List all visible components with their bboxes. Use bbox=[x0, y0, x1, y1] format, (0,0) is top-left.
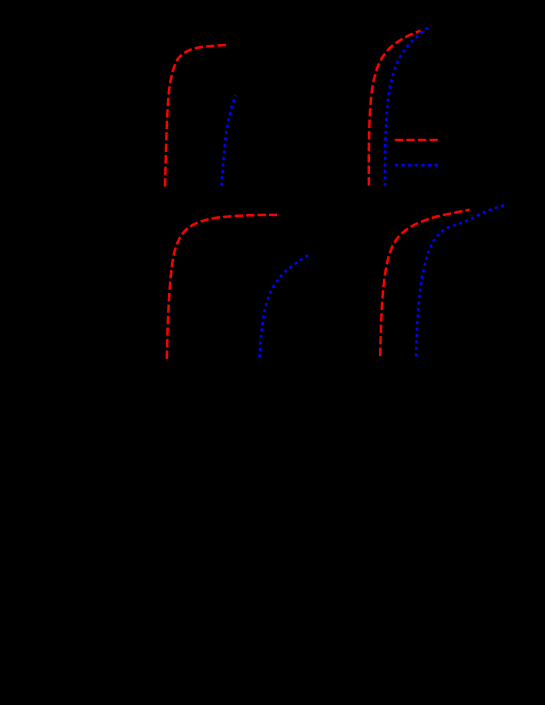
legend: blue dotted sample line bbox=[395, 164, 438, 167]
subplot a: blue dotted curve bbox=[222, 95, 236, 186]
subplot a: red dashed curve bbox=[165, 45, 226, 187]
subplot c: blue dotted curve bbox=[259, 255, 308, 357]
legend: red dashed sample line bbox=[395, 139, 438, 141]
subplot c: red dashed curve bbox=[167, 215, 277, 359]
subplot b: blue dotted curve bbox=[385, 28, 428, 186]
subplot d: blue dotted curve bbox=[416, 205, 505, 356]
subplot d: red dashed curve bbox=[380, 210, 469, 356]
subplot b: red dashed curve bbox=[369, 31, 421, 186]
